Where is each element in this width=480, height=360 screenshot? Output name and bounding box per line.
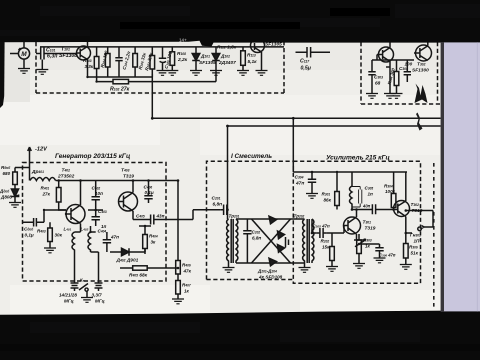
ground under C306 bbox=[374, 258, 386, 263]
variable resistor R303 bbox=[357, 240, 362, 254]
resistor R107 bbox=[150, 56, 155, 70]
svg-text:Гн301: Гн301 bbox=[410, 233, 421, 238]
wire T403 collector up bbox=[132, 181, 134, 193]
svg-text:3,3/7: 3,3/7 bbox=[92, 293, 103, 298]
resistor R106 bbox=[133, 54, 138, 68]
svg-text:43п: 43п bbox=[156, 214, 165, 219]
diode D402 bbox=[110, 248, 145, 256]
wire Tr202 to ground bbox=[304, 263, 306, 268]
transistor T302b bbox=[416, 45, 432, 61]
svg-text:С405: С405 bbox=[136, 214, 145, 219]
ring diode D203 bbox=[278, 245, 285, 253]
capacitor C304b bbox=[404, 60, 411, 82]
wire motor top bbox=[19, 41, 25, 50]
resistor R403 bbox=[48, 228, 53, 242]
svg-text:С305: С305 bbox=[365, 186, 374, 191]
transistor T301a bbox=[344, 217, 361, 234]
ground under R113 bbox=[237, 71, 249, 76]
svg-text:51к: 51к bbox=[411, 251, 419, 256]
wire R102 link bbox=[97, 70, 216, 82]
ground under C304a bbox=[306, 194, 318, 199]
main vertical wire from motor section bbox=[151, 74, 153, 118]
wire T301b emitter down to ground bbox=[386, 62, 390, 94]
ground under R304b bbox=[391, 94, 403, 99]
diode ring bottom rail bbox=[236, 262, 298, 264]
svg-text:L401: L401 bbox=[64, 227, 72, 232]
resistor R405 bbox=[133, 266, 148, 270]
wire crystal branch 2 bbox=[91, 252, 99, 283]
svg-text:3,3к: 3,3к bbox=[85, 64, 94, 69]
wire T101 emitter down bbox=[87, 60, 89, 78]
coil L401 bbox=[72, 232, 75, 252]
switch Kv wiper bbox=[79, 284, 88, 292]
svg-text:Д201-Д204: Д201-Д204 bbox=[257, 269, 277, 274]
ground under C105 bbox=[157, 71, 169, 76]
resistor R306 bbox=[404, 244, 409, 259]
resistor R304b bbox=[394, 72, 399, 86]
section box: erase oscillator output (dashed outline, top right) bbox=[361, 42, 441, 104]
svg-text:47к: 47к bbox=[183, 269, 192, 274]
wire T114 emitter to ground bbox=[261, 56, 263, 71]
svg-text:27к: 27к bbox=[42, 192, 51, 197]
capacitor C201 bbox=[220, 205, 227, 216]
diode D102 bbox=[212, 47, 220, 71]
svg-text:С205 47п: С205 47п bbox=[313, 224, 330, 229]
svg-text:R202: R202 bbox=[321, 239, 330, 244]
svg-text:3к: 3к bbox=[151, 240, 157, 245]
transistor T402 bbox=[66, 205, 85, 224]
wire base bus from C101 to T101 bbox=[48, 53, 77, 55]
svg-text:SF1308: SF1308 bbox=[59, 53, 77, 59]
svg-text:R403: R403 bbox=[37, 229, 46, 234]
connector Gn301 bbox=[418, 226, 424, 231]
svg-text:2Т3502: 2Т3502 bbox=[57, 174, 75, 180]
ground under Ddob bbox=[9, 203, 21, 208]
svg-text:14/21/28: 14/21/28 bbox=[59, 293, 77, 298]
svg-text:R112 1,8к: R112 1,8к bbox=[217, 45, 237, 51]
svg-text:Усилитель 215 кГц: Усилитель 215 кГц bbox=[326, 155, 390, 162]
svg-text:L402: L402 bbox=[81, 227, 89, 232]
capacitor C117 bbox=[296, 47, 331, 58]
divider chain wire bbox=[177, 181, 179, 261]
svg-text:С404: С404 bbox=[98, 229, 107, 234]
crystal Kv401 bbox=[71, 283, 79, 291]
resistor R301 bbox=[335, 192, 340, 206]
supply rail wire bbox=[56, 180, 178, 182]
svg-text:30к: 30к bbox=[55, 233, 63, 238]
diode ring diagonal B bbox=[252, 219, 291, 263]
resistor R401 bbox=[56, 188, 61, 203]
capacitor C101 bbox=[36, 48, 48, 60]
ground under D101 bbox=[190, 71, 202, 76]
wire motor stub left bbox=[10, 53, 18, 55]
wire base bus across section bbox=[372, 55, 414, 61]
wire Rdob to diode bbox=[14, 185, 16, 190]
transformer Tr202 primary winding bbox=[303, 219, 305, 263]
capacitor C402 bbox=[88, 181, 103, 211]
transformer Tr201 secondary winding bbox=[236, 219, 238, 263]
capacitor C304a bbox=[308, 172, 316, 194]
ring diode D201 bbox=[269, 216, 277, 224]
ground between crystals bbox=[81, 298, 93, 303]
wire generator output jog bbox=[166, 210, 220, 220]
section box: I mixer (dashed outline) bbox=[207, 161, 294, 279]
svg-text:1к: 1к bbox=[184, 289, 190, 294]
svg-text:Д402 Д901: Д402 Д901 bbox=[116, 258, 139, 264]
svg-text:6,3п: 6,3п bbox=[47, 54, 58, 60]
svg-text:0,5μ: 0,5μ bbox=[301, 66, 312, 72]
resistor R108 bbox=[170, 52, 175, 66]
svg-text:Сдоб: Сдоб bbox=[24, 227, 34, 232]
coupling capacitor C307 bbox=[352, 204, 394, 214]
svg-text:1П: 1П bbox=[414, 239, 421, 244]
svg-text:R404: R404 bbox=[149, 234, 158, 239]
wire T402 emitter down to coil L401 bbox=[75, 224, 81, 233]
zener diode Ddob bbox=[11, 189, 18, 203]
svg-text:С406: С406 bbox=[144, 185, 153, 190]
svg-text:R306: R306 bbox=[409, 245, 418, 250]
svg-text:680: 680 bbox=[3, 171, 11, 176]
wire crystal branch 1 bbox=[74, 252, 76, 283]
capacitor C404 bbox=[103, 232, 111, 252]
wire T302b collector up bbox=[427, 42, 429, 46]
svg-text:47п: 47п bbox=[110, 235, 119, 240]
svg-text:14+: 14+ bbox=[179, 38, 187, 43]
ground under R108 bbox=[166, 71, 178, 76]
svg-text:5,1к: 5,1к bbox=[248, 59, 258, 65]
wire T301a collector up bbox=[356, 210, 358, 218]
svg-text:2,2к: 2,2к bbox=[177, 57, 188, 63]
wire bus2 down to mixer transformer bbox=[227, 126, 229, 219]
svg-text:МГц: МГц bbox=[95, 299, 105, 304]
svg-text:100к: 100к bbox=[385, 189, 396, 194]
svg-text:R304: R304 bbox=[384, 184, 393, 189]
svg-text:Т319: Т319 bbox=[365, 226, 376, 232]
svg-text:6,8п: 6,8п bbox=[252, 236, 261, 241]
resistor R102 bbox=[113, 79, 129, 83]
svg-text:С403: С403 bbox=[98, 209, 107, 214]
capacitor C406 bbox=[144, 181, 152, 204]
wire T402 collector up bbox=[80, 181, 82, 206]
svg-text:M: M bbox=[21, 51, 27, 58]
svg-text:С304: С304 bbox=[399, 66, 408, 71]
center tap stub bbox=[286, 237, 289, 248]
diode D101 bbox=[192, 47, 200, 71]
coil L402 bbox=[88, 226, 96, 252]
capacitor C405 output bbox=[133, 215, 166, 225]
capacitor C303 bbox=[368, 60, 375, 94]
svg-text:Тр202: Тр202 bbox=[294, 214, 305, 219]
transistor T101 bbox=[77, 46, 91, 60]
resistor R202 bbox=[330, 247, 335, 261]
svg-text:Т319: Т319 bbox=[412, 208, 423, 214]
ground under C101 bbox=[36, 70, 48, 75]
svg-text:0,1μ: 0,1μ bbox=[145, 190, 154, 195]
svg-text:Ддоб: Ддоб bbox=[0, 189, 10, 194]
transistor T302a bbox=[394, 201, 410, 217]
resistor R113 bbox=[241, 51, 246, 66]
svg-text:SF1300: SF1300 bbox=[412, 68, 429, 74]
resistor R104 bbox=[105, 54, 110, 68]
outer dashed edge right bbox=[433, 163, 435, 308]
ground under T301b bbox=[384, 94, 396, 99]
svg-text:2Д3407: 2Д3407 bbox=[218, 60, 236, 66]
svg-text:10п: 10п bbox=[95, 191, 103, 196]
resistor R407 bbox=[176, 281, 181, 295]
svg-text:40п: 40п bbox=[362, 204, 371, 209]
wire T101 collector up bbox=[87, 42, 89, 47]
wire emitter bottom bus bbox=[88, 76, 153, 78]
diode ring diagonal A bbox=[252, 219, 291, 263]
capacitor C205 bbox=[317, 228, 326, 238]
wire T302a emitter down bbox=[405, 217, 407, 234]
svg-text:R303: R303 bbox=[363, 238, 372, 243]
svg-text:С202: С202 bbox=[252, 230, 261, 235]
wire supply down bbox=[29, 158, 31, 181]
wire motor to ground bbox=[23, 59, 25, 68]
ring diode D204 bbox=[269, 258, 277, 266]
ground under Tr202 bbox=[299, 268, 311, 273]
crystal Kv402 bbox=[95, 283, 103, 291]
svg-text:47п: 47п bbox=[295, 181, 304, 187]
svg-text:4х SFD108: 4х SFD108 bbox=[258, 275, 283, 280]
wire C101 to ground bbox=[41, 60, 43, 70]
svg-text:0,1μ: 0,1μ bbox=[25, 233, 34, 238]
capacitor C202 bbox=[243, 219, 251, 263]
transformer Tr201 core bbox=[231, 219, 233, 263]
wire T301b collector up bbox=[389, 42, 391, 48]
wire R405 to divider chain bbox=[120, 267, 178, 269]
wire T403 emitter down bbox=[132, 211, 134, 220]
wire Tr201 primary to ground bbox=[228, 219, 229, 268]
svg-text:1п: 1п bbox=[368, 192, 374, 197]
top bus wire under band bbox=[40, 46, 284, 48]
svg-text:-12V: -12V bbox=[35, 147, 48, 153]
ink smudge on bus wires bbox=[416, 113, 423, 131]
resistor R103 bbox=[94, 57, 99, 69]
capacitor Cdob input bbox=[23, 210, 67, 227]
svg-text:Кв: Кв bbox=[80, 278, 85, 283]
svg-text:Генератор 203/115 кГц: Генератор 203/115 кГц bbox=[55, 153, 130, 160]
amplifier top rail bbox=[293, 171, 407, 173]
ink smudge blob bbox=[415, 84, 428, 104]
tank capacitor C305 bbox=[352, 187, 362, 208]
resistor R304a bbox=[391, 194, 396, 208]
svg-text:1п: 1п bbox=[101, 224, 107, 229]
transistor T114 (cut by band) bbox=[251, 39, 265, 53]
svg-text:Rдоб: Rдоб bbox=[1, 165, 11, 170]
resistor R406 bbox=[176, 261, 181, 275]
tank coil L301 bbox=[350, 172, 353, 210]
wire output tap bbox=[406, 232, 412, 234]
capacitor C403 bbox=[92, 210, 100, 226]
svg-text:15к: 15к bbox=[322, 245, 330, 250]
transformer Tr202 core bbox=[307, 219, 309, 263]
ground under divider bbox=[172, 299, 184, 304]
svg-text:100: 100 bbox=[405, 62, 413, 67]
wire T301a emitter network bbox=[357, 240, 360, 264]
svg-text:С402: С402 bbox=[92, 186, 101, 191]
svg-text:Тр201: Тр201 bbox=[229, 214, 240, 219]
svg-text:R407: R407 bbox=[182, 283, 191, 288]
svg-text:68: 68 bbox=[375, 81, 381, 87]
svg-text:I Смеситель: I Смеситель bbox=[231, 153, 272, 160]
ground under R306 bbox=[400, 265, 412, 270]
wire Tr202 secondary to base bbox=[312, 219, 344, 233]
wire bus1 down to amplifier bbox=[292, 118, 294, 172]
ring diode D202 bbox=[278, 231, 285, 239]
ground under Tr201 bbox=[223, 268, 235, 273]
svg-text:R406: R406 bbox=[182, 263, 191, 268]
ground under C303 bbox=[366, 94, 378, 99]
capacitor C105 bbox=[159, 47, 166, 71]
section box: generator 203/115 kHz (dashed outline) bbox=[23, 163, 167, 282]
ground under motor bbox=[18, 69, 30, 74]
svg-text:Т319: Т319 bbox=[123, 174, 134, 180]
wire supply feed left bbox=[15, 168, 30, 173]
transformer Tr201 primary winding bbox=[227, 219, 229, 263]
svg-text:SF1305: SF1305 bbox=[199, 60, 216, 66]
transistor T403 bbox=[119, 192, 138, 211]
transistor T301b bbox=[379, 47, 394, 62]
svg-text:86к: 86к bbox=[324, 198, 332, 203]
svg-text:6,8п: 6,8п bbox=[213, 202, 223, 208]
svg-text:МГц: МГц bbox=[64, 299, 74, 304]
supply arrow -12V bbox=[28, 147, 32, 158]
svg-text:R102 27к: R102 27к bbox=[110, 87, 130, 93]
capacitor C306 bbox=[359, 244, 384, 258]
svg-text:R103: R103 bbox=[83, 58, 92, 63]
bus wire 1 bbox=[152, 117, 440, 119]
resistor R404 bbox=[143, 235, 148, 249]
inductor Dr401 bbox=[30, 178, 56, 181]
bus wire 2 bbox=[228, 125, 441, 127]
ground under T114 bbox=[256, 71, 268, 76]
wire T302a collector up bbox=[405, 172, 407, 201]
motor M1 bbox=[18, 48, 29, 59]
svg-text:1к: 1к bbox=[365, 244, 371, 249]
ground under R403 bbox=[44, 248, 56, 253]
wire T301a emitter down bbox=[356, 234, 358, 240]
svg-text:R301: R301 bbox=[322, 192, 331, 197]
section box: motor control unit (dashed outline) bbox=[36, 42, 284, 93]
capacitor C104 bbox=[115, 47, 122, 77]
svg-text:R401: R401 bbox=[41, 186, 50, 191]
output step wire bbox=[406, 211, 433, 228]
svg-text:R405 68к: R405 68к bbox=[129, 273, 148, 279]
wire R407 to ground bbox=[177, 294, 179, 299]
wire between R406 R407 bbox=[177, 274, 179, 281]
section box: amplifier 215 kHz (dashed outline) bbox=[293, 161, 420, 283]
diode ring top rail bbox=[236, 218, 298, 220]
wire ring to Tr202 bbox=[298, 219, 305, 263]
svg-text:Д808: Д808 bbox=[0, 195, 12, 200]
transformer Tr202 secondary winding bbox=[312, 219, 314, 263]
ground under D102 bbox=[210, 71, 222, 76]
svg-text:С306 47п: С306 47п bbox=[379, 253, 396, 258]
ground under R303 bbox=[353, 264, 365, 269]
resistor Rdob bbox=[13, 172, 18, 185]
ground under R202 bbox=[326, 267, 338, 272]
